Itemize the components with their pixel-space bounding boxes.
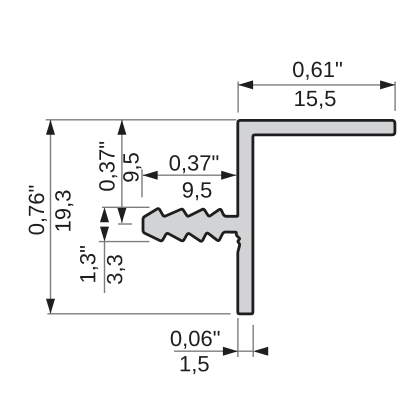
middle vertical dimension arrow bottom	[117, 208, 126, 223]
middle horizontal label inches 0,37"	[170, 155, 219, 173]
middle horizontal dimension line	[143, 174, 237, 176]
bottom dimension arrow right (outside, pointing left)	[253, 347, 268, 356]
middle vertical dimension line (9,5 down from top)	[121, 120, 123, 223]
left dimension label mm 19,3	[55, 191, 73, 231]
bottom dimension extension line left	[237, 318, 239, 357]
top dimension extension line right	[394, 82, 396, 112]
bottom dimension extension line right	[252, 325, 254, 357]
middle horizontal arrow right	[221, 171, 236, 180]
profile body (L-shaped extrusion with barbed spline)	[143, 120, 395, 314]
left dimension line	[50, 120, 52, 314]
left dimension arrow bottom	[46, 299, 55, 314]
middle vertical dimension short extension line	[118, 223, 132, 225]
left dimension extension line top	[46, 119, 237, 121]
spline top extension line	[102, 206, 150, 208]
bottom dimension line	[174, 350, 253, 352]
small vertical dimension tail line	[104, 242, 106, 293]
middle horizontal label mm 9,5	[183, 182, 212, 200]
top dimension extension line left	[237, 82, 239, 113]
middle vertical label inches 0,37"	[99, 142, 117, 191]
bottom dimension label inches 0,06"	[171, 331, 220, 349]
small vertical label inches 1,3"	[80, 246, 98, 282]
top dimension arrow left	[238, 80, 253, 89]
spline bottom extension line	[99, 241, 150, 243]
middle vertical label mm 9,5	[123, 153, 141, 182]
left dimension extension line bottom	[47, 313, 230, 315]
bottom dimension arrow left (outside, pointing right)	[223, 347, 238, 356]
small vertical dimension arrow up	[100, 207, 109, 222]
top dimension label inches 0,61"	[293, 62, 342, 80]
top dimension arrow right	[380, 80, 395, 89]
top dimension label mm 15,5	[295, 91, 335, 109]
bottom dimension label mm 1,5	[181, 356, 209, 374]
top dimension line	[238, 84, 395, 86]
middle vertical dimension arrow top	[117, 120, 126, 135]
middle horizontal dimension left extension line	[141, 169, 143, 197]
small vertical label mm 3,3	[107, 255, 125, 284]
left dimension label inches 0,76"	[29, 186, 47, 235]
left dimension arrow top	[46, 120, 55, 135]
middle horizontal arrow left	[143, 171, 158, 180]
small vertical dimension arrow down	[100, 227, 109, 242]
